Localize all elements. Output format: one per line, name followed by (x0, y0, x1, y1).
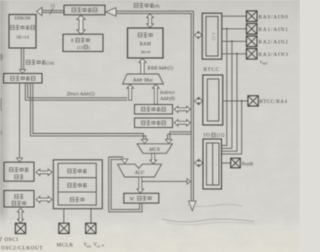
RA1 pin wire (222, 28, 247, 30)
OSC pin symbol (15, 223, 25, 233)
svg-text:RTCC/RA4: RTCC/RA4 (260, 100, 288, 105)
svg-text:(12): (12) (217, 134, 225, 139)
I/O(12) label (204, 133, 225, 139)
RTCC/RA4 label (260, 100, 288, 105)
RA1 label (259, 27, 289, 33)
register RAM box (128, 28, 164, 58)
Addr Mux right input arrow (153, 84, 160, 104)
svg-text:EPROM: EPROM (15, 16, 31, 21)
ALU (118, 164, 162, 177)
timing generator box (4, 191, 34, 208)
IR to instruction decode wire (17, 83, 23, 162)
svg-text:RA3/AIN3: RA3/AIN3 (259, 52, 289, 58)
RA1 pin symbol (246, 24, 257, 35)
svg-text:36×8: 36×8 (141, 49, 151, 54)
Direct Addr(5) label (66, 93, 95, 98)
port B box (203, 139, 222, 189)
data bus to port B arrow (195, 160, 203, 167)
svg-text:(14): (14) (47, 60, 55, 65)
FSR to data bus arrow (174, 106, 190, 112)
svg-text:ALU: ALU (134, 171, 145, 176)
svg-text:RAM Addr(5): RAM Addr(5) (147, 66, 174, 71)
RA0 pin symbol (246, 11, 257, 22)
RTCC pin wire (223, 100, 248, 102)
MUX trapezoid (137, 144, 173, 154)
RA3 pin symbol (246, 49, 257, 60)
svg-text:(8): (8) (155, 3, 161, 8)
timing to OST box arrow (36, 196, 52, 202)
svg-text:Direct Addr(5): Direct Addr(5) (66, 93, 95, 98)
svg-text:OSC1: OSC1 (5, 237, 19, 243)
RA2 label (259, 39, 289, 45)
svg-text:I/O: I/O (204, 134, 211, 139)
port A / A-D box (202, 13, 222, 59)
wrap wire from RTCC (222, 100, 243, 154)
RA0 pin wire (222, 15, 247, 17)
timing to OSC pins arrow (17, 208, 23, 223)
MCLR wire (63, 209, 65, 224)
Indirect Addr(8) label (159, 91, 175, 102)
RA0 label (259, 14, 289, 20)
Vref label (260, 60, 269, 66)
MUX output arrow to ALU (150, 153, 157, 164)
data bus top and right trunk (106, 8, 194, 201)
svg-text:W: W (130, 198, 135, 203)
RA2 pin wire (222, 40, 247, 42)
RAM Addr(5) label (147, 66, 174, 71)
svg-text:MCLR: MCLR (57, 243, 74, 249)
Vdd Vss label (84, 243, 101, 248)
RAM to data bus double arrow (147, 14, 154, 28)
svg-text:SS: SS (97, 244, 101, 248)
W register feedback loop (109, 157, 142, 212)
svg-text:A/D: A/D (210, 32, 216, 41)
svg-text:REF: REF (263, 63, 269, 66)
RA2 pin symbol (246, 36, 257, 47)
OSC1 label (0, 236, 19, 244)
data bus to MUX right input (165, 132, 191, 144)
port B pin symbol (231, 158, 241, 168)
svg-text:RA2/AIN2: RA2/AIN2 (259, 39, 289, 45)
decode to OST box arrow (36, 169, 52, 175)
wire PC to EPROM with bus width 13 (37, 3, 64, 16)
data bus label (134, 3, 160, 8)
FSR register select box (135, 105, 173, 115)
wrap wire from RA2 (222, 40, 233, 148)
svg-text:1K×14: 1K×14 (16, 35, 30, 40)
ALU output arrow to W register (137, 177, 144, 193)
svg-text:PortB: PortB (242, 162, 254, 167)
data bus to port A arrow (195, 32, 202, 39)
PortB label (242, 162, 254, 167)
svg-text:RA1/AIN1: RA1/AIN1 (259, 27, 289, 33)
svg-text:RTCC: RTCC (204, 67, 220, 73)
OST / POR / WDT box (53, 160, 102, 209)
svg-text:Indirect: Indirect (159, 91, 175, 96)
svg-text:Addr(8): Addr(8) (159, 97, 175, 102)
svg-text:OSC2/CLKOUT: OSC2/CLKOUT (1, 245, 43, 251)
data bus to RTCC arrow (195, 98, 203, 105)
data bus end arrow (189, 201, 196, 211)
instruction bus wire EPROM to IR (19, 48, 26, 73)
8-level stack box (63, 34, 103, 51)
scan artifact waves (0, 54, 256, 247)
wrap wire from RA3 (222, 53, 238, 151)
MCLR pin symbol (59, 223, 69, 233)
svg-text:RA0/AIN0: RA0/AIN0 (259, 14, 289, 20)
program counter box (64, 5, 105, 15)
RTCC label (204, 67, 220, 73)
Addr Mux trapezoid (123, 74, 164, 84)
PC-stack double arrow (77, 15, 85, 34)
literal bus IR to MUX (30, 83, 148, 144)
svg-text:Addr Mux: Addr Mux (132, 78, 154, 83)
EPROM program memory box (9, 15, 36, 49)
instruction register box (4, 74, 43, 84)
port B pin wire (222, 162, 231, 164)
MCLR label (57, 243, 74, 249)
RTCC box (203, 75, 223, 125)
svg-text:MUX: MUX (148, 148, 161, 153)
Addr Mux left input arrow (127, 84, 134, 100)
status register box (135, 118, 173, 128)
W register box (124, 193, 159, 203)
instruction bus label (26, 60, 54, 65)
RAM Addr(5) arrow (139, 58, 146, 74)
instruction decode control box (4, 162, 34, 181)
RA3 label (259, 52, 289, 58)
status to data bus arrow (174, 120, 190, 126)
Vdd Vss pin symbol (86, 223, 96, 233)
Vdd wire (90, 209, 92, 224)
RA3 pin wire (222, 53, 247, 55)
RTCC pin symbol (248, 96, 258, 106)
direct address bus (25, 83, 127, 100)
wrap wire from RA1 (222, 28, 228, 146)
ALU output branch to data bus (142, 179, 191, 185)
svg-text:RAM: RAM (140, 42, 152, 47)
OSC2/CLKOUT label (1, 245, 43, 251)
svg-text:(13: (13 (77, 45, 84, 50)
